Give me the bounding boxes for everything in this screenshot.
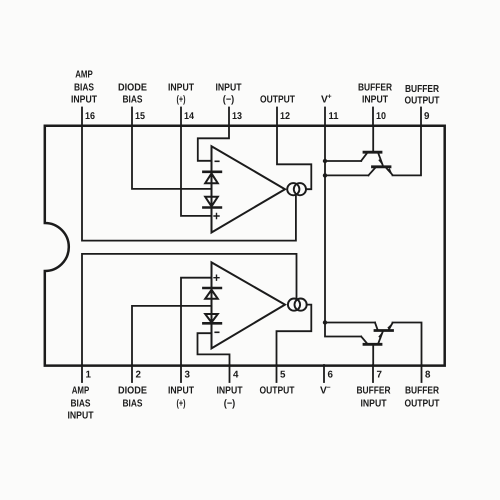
wire: Q2 emitter to pin 9 [393, 126, 422, 176]
IC package outline U1 (16-pin DIP body) [45, 126, 445, 366]
svg-text:BIAS: BIAS [71, 399, 91, 410]
node: V+ junction to Q1 collector [323, 159, 327, 163]
svg-text:1: 1 [86, 370, 92, 381]
wire: pin 15 to diode junction [132, 126, 212, 189]
pin 13 stub [228, 108, 230, 126]
svg-text:INPUT: INPUT [168, 386, 195, 397]
pin 8 stub [421, 365, 423, 382]
A1 plus input mark [214, 214, 219, 219]
A1 minus input mark [215, 160, 219, 162]
svg-text:BIAS: BIAS [74, 82, 94, 93]
pin 10 stub [372, 108, 374, 126]
svg-text:6: 6 [328, 370, 334, 381]
svg-text:OUTPUT: OUTPUT [260, 386, 296, 397]
svg-text:BUFFER: BUFFER [405, 386, 440, 397]
svg-text:OUTPUT: OUTPUT [405, 399, 441, 410]
pin 6 stub [323, 365, 325, 382]
diode D2 (top amp, lower) [205, 197, 218, 207]
A2 output current-source symbol (double circle) [288, 299, 300, 311]
svg-text:BUFFER: BUFFER [357, 386, 392, 397]
svg-text:OUTPUT: OUTPUT [405, 96, 441, 107]
svg-text:INPUT: INPUT [362, 94, 389, 105]
svg-text:INPUT: INPUT [71, 94, 98, 105]
wire: pin 13 to A1 - input (staircase) [198, 126, 229, 161]
svg-text:AMP: AMP [72, 386, 90, 397]
wire: pin 12 to A1 output [277, 126, 311, 190]
wire: pin 3 to A2 + input [181, 278, 212, 365]
wire: V+ rail from pin 11 down to lower buffer [325, 126, 361, 337]
svg-text:13: 13 [232, 111, 242, 122]
svg-text:10: 10 [376, 111, 386, 122]
svg-text:DIODE: DIODE [118, 386, 147, 397]
pin 1 stub [81, 365, 83, 382]
node: V+ junction to Q4 collector [323, 320, 327, 324]
svg-text:(+): (+) [177, 94, 186, 105]
svg-text:AMP: AMP [75, 69, 93, 80]
pin 5 stub [276, 365, 278, 382]
pin 12 stub [276, 108, 278, 126]
svg-text:DIODE: DIODE [118, 82, 147, 93]
svg-text:BIAS: BIAS [123, 399, 143, 410]
svg-text:(−): (−) [224, 399, 236, 410]
svg-text:INPUT: INPUT [168, 82, 195, 93]
pin 16 stub [81, 108, 83, 126]
diode D3 (bottom amp, upper) [203, 287, 221, 290]
svg-text:(+): (+) [177, 399, 186, 410]
pin 14 stub [180, 108, 182, 126]
svg-text:16: 16 [85, 111, 95, 122]
svg-text:14: 14 [184, 111, 194, 122]
transistor Q2 (upper buffer, output) [368, 167, 393, 176]
node: V+ junction to Q2 collector [323, 173, 327, 177]
wire: V+ to Q4 collector [325, 322, 375, 324]
wire: V+ to Q1 collector [325, 160, 361, 162]
svg-text:+: + [328, 93, 332, 100]
svg-text:11: 11 [329, 111, 340, 122]
pin 3 stub [180, 365, 182, 382]
svg-text:7: 7 [377, 370, 383, 381]
svg-text:BUFFER: BUFFER [358, 82, 393, 93]
pin 2 stub [131, 365, 133, 382]
wire: V+ to Q2 collector [325, 174, 368, 176]
diode D4 (bottom amp, lower) [205, 314, 218, 322]
pin 4 stub [229, 365, 231, 382]
wire: pin 5 to A2 output [277, 305, 312, 365]
wire: pin 2 to diode junction [132, 306, 212, 365]
A1 output current-source symbol (double circle) [287, 183, 299, 195]
op-amp A1 triangle (top amplifier) [212, 146, 286, 232]
svg-text:−: − [327, 385, 331, 392]
transistor Q1 (upper buffer, input) [361, 126, 383, 166]
svg-text:12: 12 [280, 111, 290, 122]
svg-text:INPUT: INPUT [216, 82, 243, 93]
svg-text:INPUT: INPUT [68, 410, 95, 421]
svg-text:2: 2 [136, 370, 142, 381]
svg-text:BIAS: BIAS [123, 94, 143, 105]
svg-text:INPUT: INPUT [361, 399, 388, 410]
A2 plus input mark [214, 275, 219, 280]
svg-text:5: 5 [280, 370, 286, 381]
svg-text:BUFFER: BUFFER [405, 84, 440, 95]
op-amp A2 triangle (bottom amplifier) [212, 262, 286, 348]
svg-text:(−): (−) [223, 94, 235, 105]
transistor Q3 (lower buffer, input) [361, 331, 383, 365]
diode D1 (top amp, upper) [203, 171, 221, 174]
svg-text:INPUT: INPUT [217, 386, 244, 397]
svg-text:15: 15 [135, 111, 145, 122]
wire: pin 16 to A1 bias (under triangle to output mirror) [82, 126, 296, 241]
wire: pin 1 to A2 bias (above triangle to output mirror) [82, 254, 297, 365]
pin 11 stub [324, 108, 326, 126]
A2 minus input mark [215, 331, 219, 333]
transistor Q4 (lower buffer, output) [375, 322, 393, 330]
wire: pin 4 to A2 - input (staircase) [198, 333, 230, 365]
svg-text:OUTPUT: OUTPUT [260, 94, 296, 105]
pin 7 stub [372, 365, 374, 382]
pin 15 stub [131, 108, 133, 126]
wire: Q4 emitter to pin 8 [393, 323, 422, 366]
wire: pin 14 to A1 + input [181, 126, 212, 216]
svg-text:8: 8 [425, 370, 431, 381]
svg-text:3: 3 [185, 370, 191, 381]
svg-text:9: 9 [424, 111, 430, 122]
pin 9 stub [420, 108, 422, 126]
svg-text:4: 4 [233, 370, 239, 381]
